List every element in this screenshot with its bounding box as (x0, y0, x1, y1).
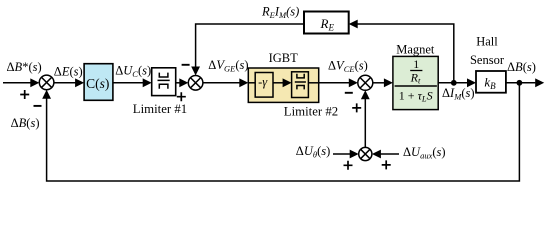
svg-text:ΔVCE(s): ΔVCE(s) (328, 59, 368, 75)
sign minus J1 (34, 105, 42, 107)
wire main feedback bottom (47, 83, 520, 181)
svg-text:ΔUaux(s): ΔUaux(s) (403, 145, 446, 161)
block RE (304, 12, 349, 34)
svg-text:ΔUC(s): ΔUC(s) (115, 64, 151, 80)
wire J2 to IGBT (203, 82, 240, 84)
node output (517, 80, 523, 86)
svg-text:ΔUθ(s): ΔUθ(s) (296, 144, 330, 160)
block kB (476, 71, 506, 93)
svg-text:ΔB*(s): ΔB*(s) (7, 60, 42, 74)
wire Limiter1 to J2 (176, 82, 180, 84)
limiter2 glyph (295, 74, 306, 90)
wire top feedback to RE (357, 24, 453, 83)
svg-text:Sensor: Sensor (470, 53, 505, 67)
svg-text:ΔE(s): ΔE(s) (54, 64, 83, 78)
wire gamma to limiter2 (273, 82, 283, 84)
wire dU_theta to J4 (333, 153, 350, 155)
sign plus J3 (352, 103, 361, 112)
svg-text:IGBT: IGBT (269, 51, 299, 65)
wire J4 to J3 (364, 99, 366, 147)
sign plus J4 right (382, 160, 391, 169)
block -gamma (255, 73, 273, 98)
wire kB to output (506, 82, 536, 84)
wire input (3, 82, 32, 84)
wire inside IGBT right (308, 82, 318, 84)
magnet inner fraction bar (410, 70, 422, 72)
svg-text:REIM(s): REIM(s) (261, 4, 299, 20)
svg-text:-γ: -γ (258, 75, 268, 89)
node after magnet (451, 80, 457, 86)
block C(s) (84, 64, 113, 101)
block Limiter2 box (292, 72, 309, 98)
svg-text:ΔVGE(s): ΔVGE(s) (208, 58, 248, 74)
block Magnet (393, 56, 438, 109)
svg-text:1 + τLS: 1 + τLS (399, 89, 433, 104)
block Limiter1 box (152, 68, 176, 96)
svg-text:1: 1 (413, 57, 419, 71)
block IGBT outer (248, 68, 318, 102)
sign plus J2 (177, 92, 186, 101)
summing junction 1 (39, 75, 54, 90)
wire J3 to Magnet (373, 82, 385, 84)
wire RE to J2 (196, 24, 304, 67)
summing junction 4 (359, 147, 372, 160)
summing junction 2 (188, 76, 203, 91)
wire J1 to C(s) (54, 82, 76, 84)
wire inside IGBT left (248, 82, 255, 84)
sign minus J2 (182, 64, 190, 66)
wire IGBT to J3 (319, 82, 350, 84)
svg-text:Magnet: Magnet (396, 43, 435, 57)
wire Magnet to kB (438, 82, 467, 84)
svg-text:Hall: Hall (476, 35, 498, 49)
svg-text:ΔB(s): ΔB(s) (507, 60, 536, 74)
sign plus J4 left (344, 161, 353, 170)
svg-text:C(s): C(s) (86, 76, 109, 91)
sign plus J1 (20, 90, 29, 99)
wire dU_aux to J4 (381, 153, 400, 155)
limiter1 glyph (158, 73, 170, 89)
svg-text:ΔIM(s): ΔIM(s) (442, 86, 475, 102)
wire C(s) to Limiter1 (113, 82, 143, 84)
magnet outer fraction bar (395, 85, 437, 87)
svg-text:Limiter #1: Limiter #1 (133, 102, 187, 116)
sign minus J3 (345, 92, 353, 94)
svg-text:Limiter #2: Limiter #2 (284, 105, 338, 119)
signs group (20, 65, 391, 170)
svg-text:ΔB(s): ΔB(s) (11, 116, 40, 130)
summing junction 3 (358, 75, 373, 90)
